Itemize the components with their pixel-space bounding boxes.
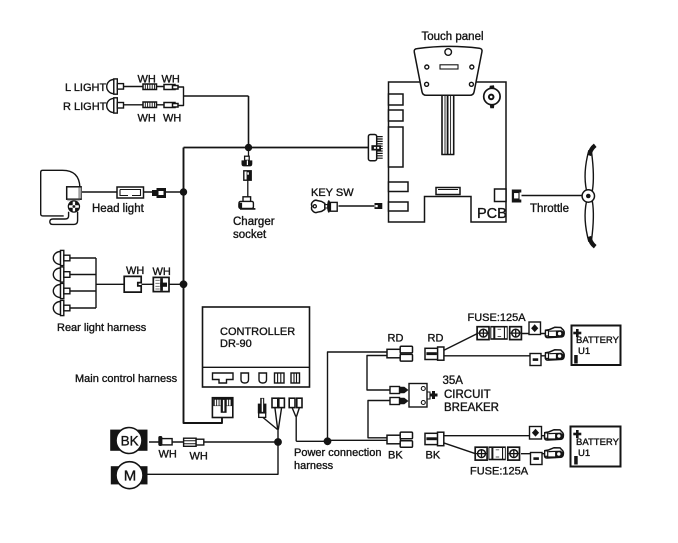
svg-text:WH: WH — [126, 265, 144, 277]
svg-text:M: M — [124, 468, 137, 485]
svg-text:Rear light harness: Rear light harness — [57, 322, 147, 334]
svg-text:35A: 35A — [443, 375, 464, 387]
svg-text:WH: WH — [190, 451, 208, 463]
svg-text:KEY SW: KEY SW — [311, 187, 354, 199]
svg-text:socket: socket — [233, 229, 267, 241]
svg-text:RD: RD — [428, 333, 444, 345]
svg-text:Touch panel: Touch panel — [422, 31, 484, 43]
svg-text:CIRCUIT: CIRCUIT — [444, 389, 491, 401]
svg-text:BK: BK — [426, 450, 441, 462]
svg-text:R LIGHT: R LIGHT — [63, 101, 107, 113]
svg-text:L LIGHT: L LIGHT — [65, 82, 106, 94]
svg-text:BATTERY: BATTERY — [576, 335, 620, 346]
svg-text:BK: BK — [121, 434, 139, 449]
svg-text:BATTERY: BATTERY — [576, 437, 620, 448]
svg-text:WH: WH — [162, 74, 180, 86]
svg-text:U1: U1 — [578, 448, 590, 459]
svg-text:RD: RD — [388, 333, 404, 345]
svg-text:WH: WH — [159, 449, 177, 461]
svg-text:U1: U1 — [578, 346, 590, 357]
svg-text:CONTROLLER: CONTROLLER — [220, 326, 295, 338]
svg-text:WH: WH — [138, 74, 156, 86]
svg-text:WH: WH — [153, 266, 171, 278]
svg-text:Power connection: Power connection — [294, 447, 381, 459]
svg-text:PCB: PCB — [477, 206, 507, 222]
svg-text:DR-90: DR-90 — [220, 338, 252, 350]
svg-text:BREAKER: BREAKER — [444, 402, 499, 414]
svg-text:harness: harness — [294, 460, 334, 472]
svg-text:WH: WH — [163, 113, 181, 125]
svg-text:Head light: Head light — [92, 203, 145, 215]
svg-text:Main control harness: Main control harness — [75, 373, 178, 385]
svg-text:BK: BK — [388, 450, 403, 462]
svg-text:Charger: Charger — [233, 216, 275, 228]
svg-text:Throttle: Throttle — [530, 203, 569, 215]
svg-text:WH: WH — [138, 113, 156, 125]
svg-text:FUSE:125A: FUSE:125A — [468, 312, 527, 324]
svg-text:FUSE:125A: FUSE:125A — [470, 466, 529, 478]
